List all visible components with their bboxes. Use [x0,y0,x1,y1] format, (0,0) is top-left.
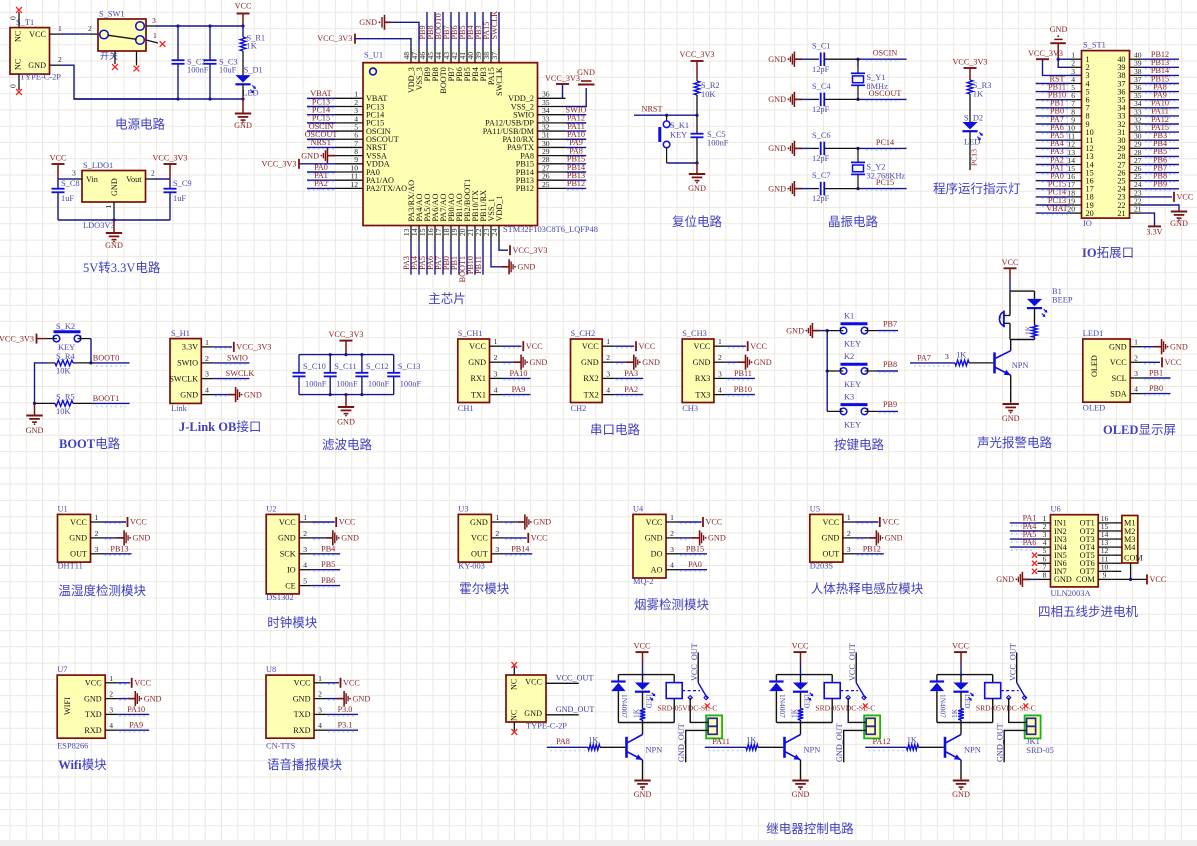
crystal Y1 [857,59,859,66]
svg-text:GND: GND [768,55,786,64]
svg-text:PA7: PA7 [917,354,931,363]
svg-text:COM: COM [1076,575,1095,584]
relay contact to connector unit 1 [690,698,708,723]
svg-text:GND: GND [470,518,488,527]
svg-text:SWIO: SWIO [177,359,198,368]
key K1 [827,330,843,332]
resistor R1 [242,26,244,37]
svg-text:1: 1 [847,513,851,522]
svg-text:NC: NC [14,30,23,42]
svg-text:STM32F103C8T6_LQFP48: STM32F103C8T6_LQFP48 [503,225,598,234]
svg-text:12pF: 12pF [812,194,830,203]
svg-text:S_K1: S_K1 [670,121,689,130]
relay contact to connector unit 2 [848,698,866,723]
svg-text:GND_OUT: GND_OUT [835,723,844,762]
U1 VDDA power VCC_3V3 [299,163,335,165]
svg-text:S_C8: S_C8 [61,179,80,188]
svg-text:GND: GND [133,534,151,543]
svg-text:4: 4 [494,386,498,395]
svg-text:S_D2: S_D2 [964,114,983,123]
svg-text:K2: K2 [844,352,854,361]
svg-text:1: 1 [205,338,209,347]
regulator LDO1 [82,171,146,203]
svg-text:GND: GND [278,534,296,543]
U2 pin2 GND [313,538,323,540]
ground GND LDO [113,220,115,233]
ground GND C6 [794,147,802,149]
wire K1 to C5 bottom [667,162,697,164]
svg-text:1K: 1K [632,708,641,718]
svg-text:VCC: VCC [1177,193,1194,202]
svg-text:SCL: SCL [1112,374,1127,383]
svg-text:GND: GND [359,18,377,27]
svg-text:复位电路: 复位电路 [672,214,723,229]
svg-text:继电器控制电路: 继电器控制电路 [766,821,854,836]
svg-text:NPN: NPN [964,746,981,755]
svg-text:OLED显示屏: OLED显示屏 [1103,423,1176,437]
U4 pin1 VCC flag [680,523,699,525]
T1 bottom no-connect pin [18,74,20,90]
H1 pin4 GND [215,395,227,397]
svg-text:3.3V: 3.3V [182,343,198,352]
svg-text:CE: CE [285,581,295,590]
svg-text:GND: GND [530,358,548,367]
svg-text:NRST: NRST [311,138,332,147]
svg-text:3.3V: 3.3V [1146,228,1162,237]
svg-text:2: 2 [495,529,499,538]
ground GND filter [345,395,347,407]
svg-text:TXD: TXD [294,710,311,719]
header S_CH2 [571,339,603,403]
svg-text:BEEP: BEEP [1052,296,1073,305]
svg-text:S_D1: S_D1 [244,66,263,75]
svg-text:U1: U1 [58,505,68,514]
svg-text:U4: U4 [633,505,644,514]
svg-text:LED1: LED1 [1083,329,1103,338]
S_CH3 pin1 VCC flag [728,347,744,349]
svg-text:CN-TTS: CN-TTS [266,742,296,751]
driver U6 ULN2003A [1051,515,1099,587]
U1 pin2 GND [105,538,115,540]
U3 pin1 GND [505,523,515,525]
svg-text:S_R5: S_R5 [56,393,75,402]
svg-text:S_CH3: S_CH3 [682,329,707,338]
svg-text:PB11: PB11 [474,256,483,274]
svg-text:100nF: 100nF [707,139,729,148]
left bus wire to BOOT1/GND [35,363,49,404]
svg-text:NC: NC [510,678,519,690]
svg-text:U2: U2 [266,505,276,514]
svg-text:1: 1 [104,205,113,209]
header S_CH3 [682,339,714,403]
relay LED unit 3 [960,675,962,683]
crystal Y2 [857,148,859,162]
LDO bottom rail [58,219,170,221]
svg-text:GND: GND [353,694,371,703]
svg-text:3: 3 [95,545,99,554]
svg-text:GND_OUT: GND_OUT [995,723,1004,762]
U1 left pins [335,97,363,99]
svg-text:VCC: VCC [471,534,488,543]
svg-text:3: 3 [847,545,851,554]
relay LED unit 2 [800,675,802,683]
svg-text:GND: GND [768,144,786,153]
svg-text:OSCIN: OSCIN [873,49,898,58]
svg-text:SWCLK: SWCLK [226,369,255,378]
svg-text:100nF: 100nF [368,380,390,389]
svg-text:GND: GND [1050,25,1068,34]
svg-text:滤波电路: 滤波电路 [322,437,373,452]
svg-text:8MHz: 8MHz [866,82,888,91]
relay unit 2 top wire [776,674,832,676]
svg-text:GND: GND [69,534,87,543]
svg-text:SWIO: SWIO [227,353,248,362]
svg-text:1: 1 [303,513,307,522]
svg-text:PA6: PA6 [1023,538,1037,547]
svg-text:3: 3 [494,369,498,378]
svg-text:SRD-05: SRD-05 [1026,746,1053,755]
svg-text:1K: 1K [247,42,257,51]
svg-text:K3: K3 [844,392,854,401]
svg-text:PA3: PA3 [624,369,638,378]
svg-text:S_C7: S_C7 [812,171,831,180]
S_CH1 pin2 GND [504,363,512,365]
svg-text:1: 1 [606,337,610,346]
svg-text:PB8: PB8 [883,360,897,369]
svg-text:NPN: NPN [804,746,821,755]
ground GND C4 [794,98,802,100]
svg-text:J-Link OB接口: J-Link OB接口 [179,419,261,434]
svg-text:VCC: VCC [85,679,102,688]
svg-text:SCK: SCK [280,550,296,559]
capacitor C4 [802,98,811,100]
key K3 [827,410,843,412]
resistor 1K alarm [1034,308,1036,325]
relay unit 2 bottom wire [776,722,832,724]
svg-text:3: 3 [109,705,113,714]
svg-text:VCC: VCC [750,342,767,351]
U4 pin2 GND [680,538,690,540]
svg-text:GND: GND [1054,575,1072,584]
key K1 net PB7 [865,330,877,332]
svg-text:2: 2 [1134,353,1138,362]
header S_CH1 [458,339,490,403]
svg-text:VCC_3V3: VCC_3V3 [952,58,987,67]
U8 pin2 GND [328,699,335,701]
svg-text:IO: IO [287,566,296,575]
svg-text:JK1: JK1 [1026,737,1040,746]
svg-text:GND_OUT: GND_OUT [677,723,686,762]
svg-text:CH1: CH1 [458,404,474,413]
svg-text:12: 12 [350,180,358,189]
svg-text:RXD: RXD [84,726,101,735]
svg-text:PA11: PA11 [712,737,730,746]
U1 bottom net label wires [410,243,412,274]
capacitor C9 [169,179,171,189]
svg-text:0: 0 [9,84,18,88]
capacitor C6 [802,147,811,149]
svg-text:VCC: VCC [1150,575,1167,584]
svg-text:S_H1: S_H1 [171,329,190,338]
svg-text:2: 2 [95,529,99,538]
power-out bottom no-connect [513,722,515,731]
svg-text:VCC: VCC [235,2,252,11]
svg-text:37: 37 [490,52,499,60]
buzzer symbol [999,312,1003,327]
svg-text:4: 4 [318,721,322,730]
svg-text:PB5: PB5 [321,560,335,569]
svg-text:GND: GND [634,790,652,799]
svg-text:S_C9: S_C9 [173,179,192,188]
emitter to GND unit 1 [642,760,644,779]
svg-text:TXD: TXD [85,710,102,719]
svg-text:VCC: VCC [50,154,67,163]
key K3 net PB9 [865,410,877,412]
U1 pin1 VCC flag [105,523,124,525]
svg-text:PA10: PA10 [510,369,528,378]
key K1 reset button [666,115,668,121]
svg-text:1: 1 [95,513,99,522]
svg-text:ULN2003A: ULN2003A [1051,589,1091,598]
svg-text:RX1: RX1 [471,374,486,383]
net wire PC15 [858,188,907,190]
svg-text:VCC: VCC [526,342,543,351]
svg-text:U3: U3 [458,505,468,514]
svg-text:3: 3 [72,169,76,178]
alarm bottom wire [1011,339,1035,341]
svg-text:VCC: VCC [134,679,151,688]
svg-text:TYPE-C-2P: TYPE-C-2P [526,722,567,731]
svg-text:RXD: RXD [293,726,310,735]
svg-text:串口电路: 串口电路 [590,422,641,437]
U7 pin2 GND [119,699,126,701]
svg-text:VCC_3V3: VCC_3V3 [679,50,714,59]
svg-text:GND: GND [468,358,486,367]
svg-text:PA0: PA0 [688,560,702,569]
svg-text:PB7: PB7 [883,319,897,328]
module U3 KY-003 [458,514,491,562]
svg-text:PA2: PA2 [314,179,328,188]
svg-text:PC14: PC14 [876,138,894,147]
svg-text:VCC_3V3: VCC_3V3 [0,335,34,344]
display LED1 OLED [1083,339,1130,402]
svg-text:GND: GND [581,358,599,367]
svg-text:GND: GND [180,390,198,399]
svg-text:12pF: 12pF [812,105,830,114]
diode 1N4007 unit 1 [617,675,619,682]
resistor R2 [696,78,698,81]
svg-text:2: 2 [151,169,155,178]
transistor NPN unit 1 [625,737,628,758]
U5 pin1 VCC flag [857,523,876,525]
svg-text:0: 0 [9,16,18,20]
svg-text:GND: GND [792,790,810,799]
svg-text:U7: U7 [57,665,67,674]
svg-text:25: 25 [542,180,550,189]
capacitor C5 [696,115,698,134]
svg-text:1: 1 [670,513,674,522]
svg-text:GND: GND [708,534,726,543]
svg-text:S_C11: S_C11 [334,362,357,371]
svg-text:温湿度检测模块: 温湿度检测模块 [59,583,147,598]
svg-text:S_C6: S_C6 [812,131,831,140]
LDO pin2 wire [146,178,154,180]
resistor R3 [967,80,973,94]
svg-text:VCC_3V3: VCC_3V3 [261,160,296,169]
svg-text:4: 4 [606,386,610,395]
svg-text:3: 3 [718,369,722,378]
module U2 DS1302 [266,514,299,594]
LDO pin3 wire [74,178,82,180]
svg-text:GND: GND [1109,343,1127,352]
svg-text:VCC: VCC [531,534,548,543]
svg-text:12pF: 12pF [812,154,830,163]
svg-text:10K: 10K [56,367,70,376]
relay coil unit 1 [673,675,675,683]
relay coil unit 2 [831,675,833,683]
svg-text:1K: 1K [973,90,983,99]
svg-text:VCC: VCC [1002,258,1019,267]
svg-text:Vin: Vin [86,175,98,184]
U1 right pins [538,97,566,99]
transistor Q1 NPN alarm [993,352,996,373]
svg-text:2: 2 [58,55,62,64]
svg-text:PB10: PB10 [734,385,752,394]
S_CH3 pin2 GND [728,363,736,365]
T1 top no-connect pin [18,12,20,28]
svg-text:DS1302: DS1302 [266,593,293,602]
svg-text:3: 3 [1134,369,1138,378]
svg-text:WIFI: WIFI [63,697,72,715]
svg-text:1: 1 [153,31,157,40]
svg-text:PB0: PB0 [1149,384,1163,393]
relay LED resistor 1K unit 1 [642,692,644,709]
svg-text:VCC: VCC [792,642,809,651]
resistor R4 [48,362,55,364]
svg-text:BOOT0: BOOT0 [93,354,119,363]
LED1 pin2 VCC flag [1144,363,1158,365]
svg-text:PB4: PB4 [321,544,335,553]
svg-text:语音播报模块: 语音播报模块 [267,757,343,772]
svg-text:VCC: VCC [525,678,542,687]
svg-text:S_Y2: S_Y2 [866,163,885,172]
svg-text:4: 4 [1134,385,1138,394]
svg-text:VCC_3V3: VCC_3V3 [545,74,580,83]
svg-text:RX3: RX3 [695,374,710,383]
svg-text:VCC: VCC [639,342,656,351]
T1 pin1 VCC wire to switch [50,33,61,35]
svg-text:PB15: PB15 [686,544,704,553]
svg-text:GND: GND [337,418,355,427]
key K2 boot [47,338,57,340]
svg-text:PC13: PC13 [970,149,979,166]
svg-text:PA2: PA2 [624,385,638,394]
svg-text:程序运行指示灯: 程序运行指示灯 [933,181,1021,196]
svg-text:按键电路: 按键电路 [834,437,885,452]
ST1 pin22 to GND [1142,205,1180,210]
svg-text:S_C4: S_C4 [812,82,831,91]
svg-text:GND_OUT: GND_OUT [556,705,595,714]
ground GND C7 [794,188,802,190]
svg-text:PA8: PA8 [556,737,570,746]
svg-text:1N4007: 1N4007 [778,694,787,718]
connector TYPE-C-2P power out [506,675,546,722]
svg-text:VCC: VCC [294,679,311,688]
svg-text:GND: GND [952,790,970,799]
svg-text:2: 2 [606,353,610,362]
module U8 CN-TTS [266,675,314,738]
svg-text:VCC: VCC [882,518,899,527]
svg-text:VCC: VCC [29,30,46,39]
svg-text:10K: 10K [701,90,715,99]
svg-text:21: 21 [1134,205,1142,214]
alarm emitter to GND [1010,375,1012,402]
svg-text:PB9: PB9 [1153,180,1167,189]
svg-text:GND: GND [293,694,311,703]
svg-text:PB11: PB11 [734,369,752,378]
svg-text:SWCLK: SWCLK [495,67,504,96]
switch SW1 [98,19,146,51]
svg-text:VCC_OUT: VCC_OUT [556,674,594,683]
svg-text:S_R4: S_R4 [56,352,75,361]
key K2 [827,370,843,372]
svg-text:VCC: VCC [1165,358,1182,367]
relay LED resistor 1K unit 3 [960,692,962,709]
net wire OSCIN [858,58,907,60]
U1 VSS_1 to GND [491,243,502,266]
svg-text:S_CH1: S_CH1 [458,329,483,338]
svg-text:2: 2 [670,529,674,538]
svg-text:CH2: CH2 [571,404,587,413]
svg-text:4: 4 [718,386,722,395]
svg-text:VCC_3V3: VCC_3V3 [317,34,352,43]
svg-text:3: 3 [318,705,322,714]
svg-text:KY-003: KY-003 [458,561,485,570]
svg-text:1K: 1K [1024,325,1033,335]
relay output connector unit 2 [864,715,880,738]
svg-text:四相五线步进电机: 四相五线步进电机 [1038,605,1139,619]
svg-text:1uF: 1uF [61,194,74,203]
bottom rail wire [74,98,243,100]
svg-text:TX2: TX2 [584,390,599,399]
svg-text:24: 24 [490,228,499,236]
U1 top net label wires [426,12,428,46]
capacitor C13 [393,355,395,373]
svg-text:2: 2 [205,354,209,363]
ST1 pin23 to VCC flag [1142,196,1173,198]
U6 unconnected inputs IN5-IN7 [1032,553,1037,558]
keys bus wire [826,331,828,412]
svg-text:OLED: OLED [1083,404,1105,413]
svg-text:VCC_3V3: VCC_3V3 [1028,49,1063,58]
svg-text:TX3: TX3 [695,390,710,399]
U2 pin1 VCC flag [313,523,332,525]
svg-text:GND: GND [28,61,46,70]
svg-text:S_ST1: S_ST1 [1083,41,1106,50]
svg-text:VCC: VCC [822,518,839,527]
H1 pin1 VCC_3V3 flag [215,347,231,349]
svg-text:GND: GND [768,95,786,104]
svg-text:烟雾检测模块: 烟雾检测模块 [634,597,710,612]
svg-text:MQ-2: MQ-2 [633,577,653,586]
U3 pin2 VCC flag [505,538,524,540]
relay output connector unit 3 [1025,715,1041,738]
svg-text:PB14: PB14 [511,544,529,553]
svg-text:CH3: CH3 [682,404,698,413]
svg-text:AO: AO [651,566,663,575]
svg-text:GND: GND [144,694,162,703]
svg-text:OUT: OUT [822,550,839,559]
